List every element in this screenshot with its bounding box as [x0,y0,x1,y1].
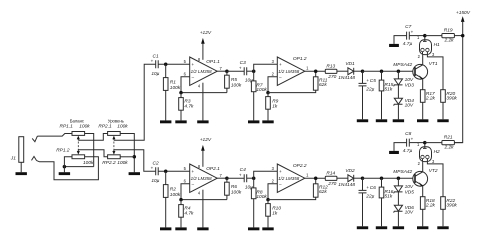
junction R15 [380,69,384,73]
ground VD4 [393,119,404,122]
wire RP1.2 left down [64,157,72,172]
svg-text:4.7µ: 4.7µ [403,148,413,154]
wire RP1.1 right to ground bus [85,134,94,167]
svg-text:VD1: VD1 [345,61,355,67]
svg-text:390k: 390k [446,96,457,102]
resistor R17 [420,90,425,103]
wire RP1.2 wiper to RP2.2 [78,150,107,157]
svg-text:100k: 100k [79,124,90,130]
wire C6 to ground [362,193,364,226]
wire R13 to VD1 [337,70,348,72]
resistor R12 [313,184,318,197]
wire C7 to anode node [409,35,425,37]
ground R9 [262,120,273,123]
svg-text:OP1.1: OP1.1 [206,59,220,65]
svg-text:H1: H1 [434,42,440,48]
wire to R2 [165,171,167,184]
svg-text:10V: 10V [405,209,414,215]
resistor R10 [266,204,271,217]
svg-text:22µ: 22µ [365,87,374,93]
svg-text:100k: 100k [170,85,181,91]
junction rail R19 [461,34,465,38]
wire -in OP2.2 [268,184,277,200]
wire RP2.2 right [120,156,134,158]
input jack J1 [19,137,24,163]
svg-text:OP1.2: OP1.2 [293,56,307,62]
wire R5 to feedback [226,88,228,92]
wire H2 cathode2 to R22 [427,159,443,197]
resistor R3 [179,98,184,111]
wire to C5 [362,71,364,83]
svg-text:100k: 100k [231,190,242,196]
junction C5 [361,69,365,73]
wire R2 to ground [165,197,167,227]
wire to C6 [362,178,364,190]
diode VD1 [348,68,354,75]
svg-text:+: + [279,62,282,67]
potentiometer RP1.1 [72,132,85,136]
svg-text:R5: R5 [231,77,237,83]
wire to R9 [267,93,269,97]
svg-text:10V: 10V [405,77,414,83]
svg-text:2.2k: 2.2k [425,96,436,102]
wire ring loop to RP1.2 right [37,157,99,180]
capacitor C8 plates [407,139,410,147]
svg-text:R14: R14 [326,170,335,176]
wire R22 to ground [442,209,444,226]
svg-text:+: + [151,58,154,63]
svg-text:10V: 10V [405,102,414,108]
wire to R1 [165,64,167,77]
resistor R19 [442,34,455,38]
svg-text:100k: 100k [117,160,128,166]
wire H1 cathode2 to R20 [427,52,443,90]
wire R17 to ground [422,102,424,119]
svg-text:390k: 390k [446,203,457,209]
svg-text:100k: 100k [231,83,242,89]
op-amp OP1.1 triangle [190,57,218,85]
tube H1 cathode 1 [421,48,424,51]
junction anode H2 [423,141,427,145]
svg-text:100k: 100k [83,160,94,166]
wire RP2.1 right to ground [120,134,134,173]
wire node up to +in OP2.2 [254,171,278,178]
svg-text:10µ: 10µ [151,178,159,184]
svg-text:4.7k: 4.7k [184,104,194,110]
svg-text:100k: 100k [256,194,267,200]
svg-text:RP2.2: RP2.2 [102,160,116,166]
wire to VD3 [397,71,399,79]
svg-text:+12V: +12V [200,137,212,143]
wire to R16 [381,178,383,187]
junction C3-R7 [252,69,256,73]
op-amp OP2.1 triangle [190,164,218,192]
zener diode VD3 [394,79,402,85]
wire to R7 [253,71,255,81]
svg-text:R1: R1 [170,79,176,85]
svg-text:R19: R19 [444,28,453,34]
transistor VT1 base bar [414,67,416,76]
wire C8 to anode node [409,142,425,144]
ground J1 [16,172,27,175]
ground pin4 OP1.1 [197,120,208,123]
svg-text:22µ: 22µ [365,194,374,200]
wire out to R5 [226,71,228,75]
svg-text:MPSA42: MPSA42 [393,169,412,175]
jack contact tip [32,136,37,142]
zener diode VD5 [394,186,402,192]
svg-text:RP2.1: RP2.1 [98,124,112,130]
capacitor C4 plates [244,174,247,182]
resistor R13 [325,69,337,73]
wire to R4 [180,200,182,205]
ground C7 [389,44,399,47]
wire C1 to opamp [158,63,190,65]
svg-text:51k: 51k [385,86,393,92]
tube H1 cathode 2 [426,48,429,51]
svg-text:+12V: +12V [200,30,212,36]
tube H2 anode [423,143,427,149]
svg-text:2.2k: 2.2k [425,203,436,209]
capacitor C2 plates [156,167,159,175]
resistor R16 [379,187,384,198]
wire to R15 [381,71,383,80]
svg-text:J1: J1 [10,155,16,161]
wire VD3 to VD4 [397,85,399,98]
+150V arrow [461,16,465,22]
wire OP1.1 output [217,70,227,72]
svg-text:+: + [411,29,414,34]
zener diode VD4 [394,98,402,104]
ground C6 [357,226,368,229]
wire R11 to out node [315,71,317,77]
ground C8 [389,151,399,154]
wire VD6 to ground [397,211,399,226]
junction OP1.1 out [225,69,229,73]
ground R22 [437,226,448,229]
junction R16 [380,176,384,180]
tube H1 anode [423,36,427,42]
gang dashed link RP1 [77,142,79,151]
wire RP2.1 wiper to C1 [114,64,155,140]
svg-text:VD3: VD3 [405,82,415,88]
svg-text:VD5: VD5 [405,189,415,195]
svg-text:C2: C2 [153,160,159,166]
svg-text:OP2.2: OP2.2 [293,163,307,169]
wiper arrow RP1.1 [77,136,80,140]
wire to VD5 [397,178,399,186]
wire OP2.2 output [305,177,326,179]
svg-text:100k: 100k [170,192,181,198]
wire anode node to R19 [425,35,442,37]
ground R17 [417,119,428,122]
potentiometer RP2.2 [108,155,121,159]
junction OP2.2 out [314,176,318,180]
feedback R12 wire [268,197,316,199]
wiper arrow RP2.1 [112,136,115,140]
svg-text:62k: 62k [319,82,327,88]
wire H1 cathode1 to collector [422,52,424,55]
ground C5 [357,119,368,122]
ground R8 [248,227,259,230]
wire VD4 to ground [397,104,399,119]
junction RP1.2 ground [63,165,67,169]
resistor R20 [441,90,446,103]
wire C5 to ground [362,86,364,119]
wire C8 ground arm [394,143,406,151]
ground bus pots [64,166,93,168]
svg-text:R6: R6 [231,184,237,190]
wire VD2 to node [354,177,363,179]
ground VD6 [393,226,404,229]
op-amp OP1.2 triangle [277,57,305,85]
svg-text:+: + [192,169,195,174]
svg-text:+: + [239,66,242,71]
transistor VT2 collector [415,162,423,177]
ground R18 [417,226,428,229]
resistor R15 [379,80,384,91]
feedback R11 wire [268,90,316,92]
wire R19 to rail [454,35,462,37]
resistor R1 [163,78,168,91]
transistor VT2 base bar [414,174,416,183]
wire H2 cathode1 to collector [422,159,424,162]
wire R6 to feedback [226,195,228,199]
wire VD1 to node [354,70,363,72]
ground R2 [160,227,171,230]
wire out to C4 [227,177,244,179]
wire C2 to opamp [158,170,190,172]
svg-text:100k: 100k [256,87,267,93]
wire R4 to ground [180,217,182,227]
op-amp OP2.2 triangle [277,164,305,192]
+12V arrow OP1.1 [201,38,205,44]
svg-text:270: 270 [327,74,336,80]
junction OP2.1 out [225,176,229,180]
ground R10 [262,227,273,230]
junction feedback R4 [179,198,183,202]
wire VD5 to VD6 [397,192,399,205]
svg-text:VT1: VT1 [429,61,438,67]
svg-text:1/2 LM358: 1/2 LM358 [191,176,213,181]
wire pin8 OP1.1 to +12V [202,44,204,60]
svg-text:RP1.2: RP1.2 [56,148,70,154]
wire to R3 [180,93,182,98]
junction C1-R1 [164,63,168,67]
svg-text:MPSA42: MPSA42 [393,62,412,68]
wire R3 to ground [180,110,182,120]
ground R15 [376,119,387,122]
svg-text:Баланс: Баланс [70,118,84,123]
diode VD2 [348,175,354,182]
ground R1 [160,120,171,123]
svg-text:1N4148: 1N4148 [338,75,355,81]
wire -in OP1.2 [268,77,277,93]
wire pin8 OP2.1 to +12V [202,151,204,167]
capacitor C1 plates [156,60,159,68]
svg-text:+: + [239,173,242,178]
junction VD3 [397,69,401,73]
wire tip to RP1.1 [37,134,72,137]
ground R16 [376,226,387,229]
svg-text:1/2 LM358: 1/2 LM358 [191,69,213,74]
svg-text:VT2: VT2 [429,168,438,174]
potentiometer RP2.1 [108,132,121,136]
zener diode VD6 [394,205,402,211]
tube H2 envelope [420,147,432,162]
resistor R21 [442,141,455,145]
resistor R5 [225,75,230,88]
svg-text:+150V: +150V [456,10,471,16]
wire C3 to node [247,70,254,72]
resistor R9 [266,97,271,110]
ground R7 [248,120,259,123]
wire R21 to rail [454,142,462,144]
transistor VT1 emitter [415,74,423,90]
wire to R10 [267,200,269,204]
svg-text:4.7k: 4.7k [184,211,194,217]
junction anode H1 [423,34,427,38]
junction feedback R3 [179,91,183,95]
wire C7 ground arm [394,36,406,44]
svg-text:+: + [411,136,414,141]
wire detector bus [363,177,414,179]
wire RP1.1 wiper to RP2.1 [78,134,107,141]
wire OP1.2 output [305,70,326,72]
svg-text:10µ: 10µ [151,71,159,77]
ground RP2 [129,172,140,175]
capacitor C5 plates [359,83,367,86]
svg-text:51k: 51k [385,193,393,199]
wire R7 to ground [253,92,255,121]
svg-text:C5: C5 [370,78,376,84]
jack contact ring [32,156,37,160]
junction C6 [361,176,365,180]
wire R14 to VD2 [337,177,348,179]
wiper arrow RP2.2 [112,151,115,155]
wire R9 to ground [267,109,269,120]
svg-text:C6: C6 [370,185,376,191]
svg-text:1/2 LM358: 1/2 LM358 [278,176,300,181]
ground R3 [175,120,186,123]
svg-text:2.2k: 2.2k [443,145,454,151]
wire detector bus [363,70,414,72]
ground R4 [175,227,186,230]
junction RP2.2 ground [133,155,137,159]
resistor R6 [225,182,230,195]
capacitor C6 plates [359,190,367,193]
wire R12 to out node [315,178,317,184]
wire pin4 OP1.1 to ground [202,83,204,121]
svg-text:1k: 1k [272,210,278,216]
wire J1 sleeve to ground [20,162,22,172]
svg-text:2.2k: 2.2k [443,38,454,44]
wire R20 to ground [442,102,444,119]
svg-text:+: + [279,169,282,174]
capacitor C7 plates [407,32,410,40]
tube H2 cathode 1 [421,155,424,158]
svg-text:H2: H2 [434,149,440,155]
wire out to R6 [226,178,228,182]
wire OP2.1 output [217,177,227,179]
wire R10 to ground [267,216,269,227]
gang dashed link RP2 [113,142,115,151]
wire anode node to R21 [425,142,442,144]
junction OP1.2 out [314,69,318,73]
ground pin4 OP2.1 [197,227,208,230]
svg-text:VD2: VD2 [345,168,355,174]
wire to R8 [253,178,255,188]
junction VD5 [397,176,401,180]
svg-text:1k: 1k [272,103,278,109]
svg-text:10V: 10V [405,184,414,190]
svg-text:R2: R2 [170,186,176,192]
tube H1 envelope [420,40,432,55]
junction C4-R8 [252,176,256,180]
+150V rail [454,22,462,143]
resistor R22 [441,197,446,210]
resistor R14 [325,176,337,180]
svg-text:OP2.1: OP2.1 [206,166,220,172]
transistor VT1 collector [415,55,423,70]
svg-text:C1: C1 [153,53,159,59]
svg-text:1N4148: 1N4148 [338,182,355,188]
wire pin4 OP2.1 to ground [202,190,204,228]
resistor R7 [251,81,256,92]
transistor VT2 emitter [415,181,423,197]
junction R9-R11 [266,91,270,95]
svg-text:4.7µ: 4.7µ [403,41,413,47]
svg-text:R13: R13 [326,63,335,69]
wire out to C3 [227,70,244,72]
wire C4 to node [247,177,254,179]
ground R20 [437,119,448,122]
wire node up to +in OP1.2 [254,64,278,71]
feedback wire OP1.1 [181,77,227,93]
resistor R18 [420,197,425,210]
feedback wire OP2.1 [181,184,227,200]
wire R16 to ground [381,198,383,226]
svg-text:+: + [192,62,195,67]
wire RP2.2 wiper to C2 [114,150,155,172]
capacitor C3 plates [244,67,247,75]
svg-text:100k: 100k [117,124,128,130]
+12V arrow OP2.1 [201,145,205,151]
resistor R4 [179,205,184,218]
potentiometer RP1.2 [72,155,85,159]
transistor VT1 circle [413,64,428,79]
svg-text:RP1.1: RP1.1 [60,124,74,130]
resistor R2 [163,185,168,198]
wire R18 to ground [422,209,424,226]
wire R15 to ground [381,91,383,119]
svg-text:1/2 LM358: 1/2 LM358 [278,69,300,74]
svg-text:270: 270 [327,181,336,187]
junction C2-R2 [164,170,168,174]
wire R1 to ground [165,90,167,120]
tube H2 cathode 2 [426,155,429,158]
svg-text:R21: R21 [444,135,453,141]
resistor R11 [313,77,318,90]
wire R8 to ground [253,199,255,228]
resistor R8 [251,188,256,199]
transistor VT2 circle [413,171,428,186]
wiper arrow RP1.2 [77,151,80,155]
ground RP1 [59,172,70,175]
svg-text:62k: 62k [319,189,327,195]
junction R10-R12 [266,198,270,202]
svg-text:+: + [151,165,154,170]
